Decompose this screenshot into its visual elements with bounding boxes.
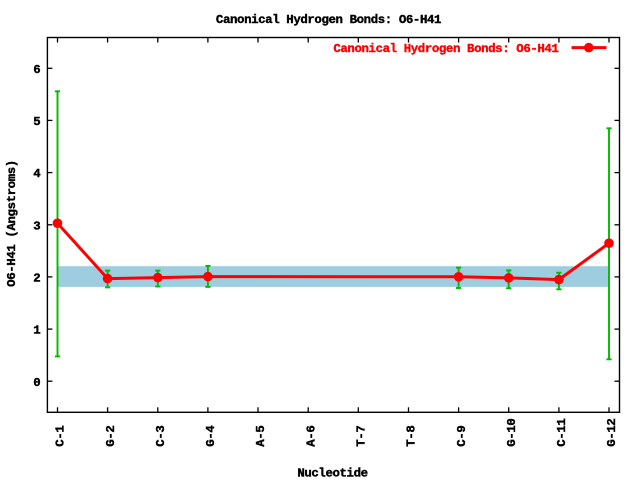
- svg-text:0: 0: [33, 376, 40, 390]
- data point markers: [53, 218, 614, 284]
- svg-text:A-6: A-6: [304, 426, 318, 447]
- error bars (std dev): [55, 91, 612, 359]
- svg-text:Canonical Hydrogen Bonds: O6-H: Canonical Hydrogen Bonds: O6-H41: [333, 42, 558, 56]
- x tick labels: [54, 419, 620, 447]
- svg-text:G-2: G-2: [104, 426, 118, 447]
- svg-text:A-5: A-5: [254, 426, 268, 447]
- plot border: [47, 38, 619, 413]
- svg-text:5: 5: [33, 115, 40, 129]
- svg-text:C-1: C-1: [54, 426, 68, 447]
- svg-text:G-4: G-4: [204, 425, 218, 447]
- legend point sample: [584, 43, 594, 53]
- svg-text:Canonical Hydrogen Bonds: O6-H: Canonical Hydrogen Bonds: O6-H41: [216, 13, 441, 27]
- svg-text:C-11: C-11: [555, 419, 569, 447]
- svg-text:C-3: C-3: [154, 426, 168, 447]
- legend line sample: [572, 46, 607, 49]
- svg-text:T-7: T-7: [355, 426, 369, 447]
- svg-text:G-10: G-10: [505, 419, 519, 447]
- svg-text:T-8: T-8: [405, 426, 419, 447]
- axis tick marks: [47, 38, 619, 413]
- y tick labels: [33, 63, 41, 390]
- svg-text:Nucleotide: Nucleotide: [297, 466, 367, 480]
- svg-text:2: 2: [33, 272, 40, 286]
- data line O6-H41: [58, 223, 610, 279]
- svg-text:O6-H41 (Angstroms): O6-H41 (Angstroms): [5, 160, 19, 287]
- svg-text:C-9: C-9: [455, 426, 469, 447]
- svg-text:3: 3: [33, 219, 40, 233]
- svg-text:6: 6: [33, 63, 40, 77]
- reference band 1.8-2.2 Angstroms: [58, 266, 610, 287]
- svg-text:1: 1: [33, 324, 40, 338]
- svg-text:G-12: G-12: [605, 419, 619, 447]
- svg-text:4: 4: [33, 167, 41, 181]
